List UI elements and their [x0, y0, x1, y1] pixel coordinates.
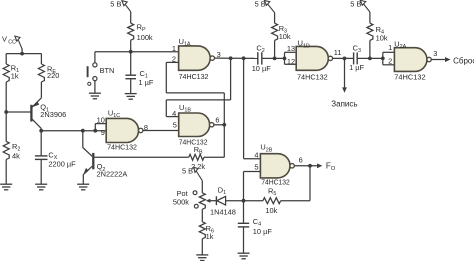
- svg-text:13: 13: [287, 44, 295, 53]
- svg-text:74HC132: 74HC132: [394, 72, 425, 81]
- svg-text:74HC132: 74HC132: [261, 178, 290, 187]
- svg-text:3: 3: [217, 50, 221, 59]
- svg-text:6: 6: [299, 156, 303, 165]
- svg-text:5 В: 5 В: [182, 167, 193, 176]
- svg-text:5: 5: [254, 163, 258, 172]
- svg-text:12: 12: [287, 57, 295, 66]
- svg-text:1 µF: 1 µF: [139, 78, 154, 87]
- svg-text:3: 3: [433, 49, 437, 58]
- svg-text:1N4148: 1N4148: [210, 207, 236, 216]
- svg-text:5 В: 5 В: [110, 0, 121, 9]
- svg-text:2N3906: 2N3906: [40, 110, 66, 119]
- svg-text:5 В: 5 В: [255, 0, 266, 9]
- svg-text:74HC132: 74HC132: [107, 142, 137, 151]
- svg-text:CC: CC: [8, 39, 16, 45]
- svg-text:4: 4: [254, 150, 258, 159]
- svg-text:Запись: Запись: [331, 100, 357, 109]
- svg-text:10k: 10k: [265, 206, 277, 215]
- svg-text:2N2222A: 2N2222A: [97, 170, 128, 179]
- svg-text:2200 µF: 2200 µF: [48, 160, 76, 169]
- svg-text:74HC132: 74HC132: [297, 72, 328, 81]
- svg-text:1k: 1k: [206, 232, 214, 241]
- svg-text:5: 5: [173, 120, 177, 129]
- svg-text:Сброс: Сброс: [453, 56, 474, 65]
- svg-text:500k: 500k: [173, 198, 189, 207]
- svg-text:10 µF: 10 µF: [253, 227, 273, 236]
- svg-text:220: 220: [47, 71, 59, 80]
- svg-text:5 В: 5 В: [350, 0, 361, 9]
- svg-text:9: 9: [101, 128, 105, 137]
- svg-text:1k: 1k: [11, 71, 19, 80]
- svg-text:1: 1: [388, 43, 392, 52]
- svg-text:11: 11: [334, 48, 342, 57]
- svg-text:BTN: BTN: [100, 66, 115, 75]
- svg-text:10 µF: 10 µF: [252, 64, 272, 73]
- svg-text:4: 4: [172, 109, 176, 118]
- svg-text:4k: 4k: [12, 152, 20, 161]
- svg-text:6: 6: [215, 116, 219, 125]
- svg-text:74HC132: 74HC132: [179, 72, 209, 81]
- svg-text:1 µF: 1 µF: [349, 63, 364, 72]
- svg-text:1: 1: [172, 44, 176, 53]
- svg-text:2: 2: [388, 56, 392, 65]
- svg-text:10k: 10k: [376, 33, 388, 42]
- svg-text:V: V: [2, 35, 7, 44]
- svg-text:100k: 100k: [137, 33, 153, 42]
- svg-text:10k: 10k: [279, 32, 291, 41]
